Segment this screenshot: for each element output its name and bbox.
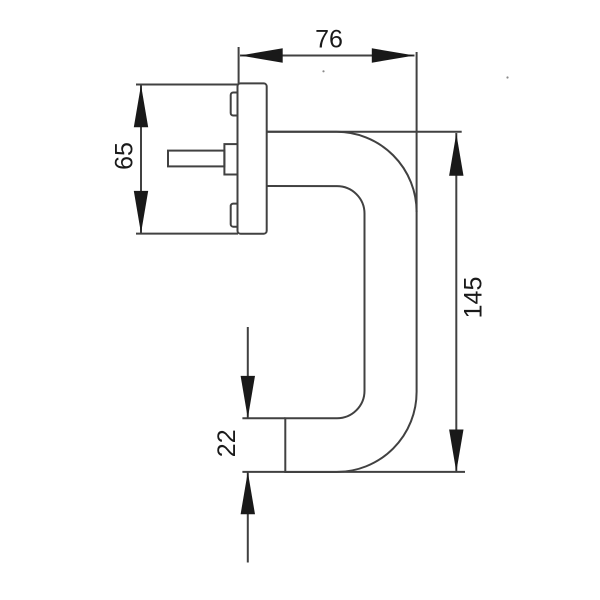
extension line top of handle / 145 top bbox=[267, 131, 462, 133]
arrow 145 down bbox=[449, 430, 463, 472]
speck artifact right bbox=[506, 76, 508, 78]
dimension 145 line bbox=[455, 133, 457, 472]
arrow 22 up-to-tick bbox=[241, 472, 255, 514]
extension line 76 right / handle outer edge bbox=[416, 52, 418, 212]
speck artifact left bbox=[322, 70, 324, 72]
dimension 65 extension line bottom bbox=[136, 233, 238, 235]
rosette plate bbox=[238, 83, 267, 233]
svg-text:65: 65 bbox=[111, 142, 139, 170]
arrow 65 up bbox=[134, 85, 148, 127]
dimension 22 line lower bbox=[247, 473, 249, 563]
svg-text:76: 76 bbox=[315, 26, 343, 54]
top fixing tab bbox=[231, 93, 238, 116]
bottom fixing tab bbox=[231, 204, 238, 227]
spindle square block bbox=[224, 144, 237, 174]
dimension 65 extension line top bbox=[136, 84, 238, 86]
extension line bottom of handle / 145 bottom bbox=[285, 471, 465, 473]
arrow 76 right bbox=[372, 48, 415, 62]
svg-text:22: 22 bbox=[213, 429, 241, 457]
arrow 76 left bbox=[240, 48, 283, 62]
dimension 76 line bbox=[240, 55, 415, 57]
dimension 22 line upper bbox=[247, 327, 249, 418]
arrow 65 down bbox=[134, 191, 148, 233]
dimension 22 tick top bbox=[242, 417, 285, 419]
svg-text:145: 145 bbox=[460, 277, 488, 319]
arrow 145 up bbox=[449, 134, 463, 176]
handle grip outline bbox=[267, 132, 417, 472]
arrow 22 down-to-tick bbox=[241, 376, 255, 418]
dimension 22 tick bottom bbox=[242, 471, 285, 473]
dimension 76 extension line left bbox=[238, 47, 240, 84]
dimension 65 line bbox=[140, 85, 142, 233]
spindle bar bbox=[168, 151, 224, 167]
